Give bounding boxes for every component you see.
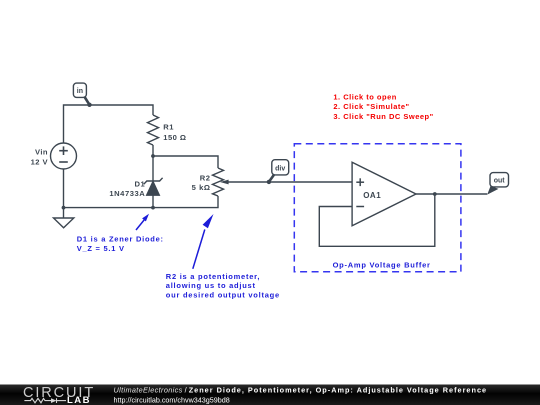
wire wiper to op-amp [228, 181, 352, 183]
node junction ground [62, 206, 66, 210]
node junction output [433, 192, 437, 196]
wire op-amp feedback [319, 194, 435, 246]
svg-text:Vin: Vin [35, 147, 48, 156]
blue arrow to D1 junction [136, 214, 149, 230]
wire bottom ground net [64, 196, 219, 208]
voltage source Vin [51, 143, 77, 169]
label Vin 12 V [31, 147, 49, 166]
wire node junction to R2 top [153, 156, 218, 168]
label D1 1N4733A [109, 180, 145, 199]
svg-text:5 kΩ: 5 kΩ [192, 183, 211, 192]
dashed box op-amp voltage buffer [294, 144, 461, 272]
wire top net in [64, 105, 154, 143]
ground [54, 208, 74, 228]
label R2 5 kohm [192, 173, 211, 192]
svg-text:V_Z = 5.1 V: V_Z = 5.1 V [77, 244, 125, 253]
svg-text:UltimateElectronics / Zener Di: UltimateElectronics / Zener Diode, Poten… [114, 385, 488, 394]
svg-text:R2 is a potentiometer,: R2 is a potentiometer, [166, 272, 260, 281]
node junction D1 bottom [151, 206, 155, 210]
svg-text:http://circuitlab.com/chvw343g: http://circuitlab.com/chvw343g59bd8 [114, 395, 230, 404]
svg-text:12 V: 12 V [31, 157, 49, 166]
net flag out [487, 173, 508, 195]
blue arrow to R2 [193, 214, 214, 269]
wire Vin bottom [63, 169, 65, 208]
zener diode D1 [144, 178, 163, 195]
R2 wiper arrow [220, 180, 229, 185]
op-amp OA1 [352, 162, 416, 226]
wire D1 to bottom [152, 195, 154, 208]
svg-text:2. Click "Simulate": 2. Click "Simulate" [333, 102, 409, 111]
svg-text:LAB: LAB [67, 395, 91, 405]
svg-text:allowing us to adjust: allowing us to adjust [166, 281, 256, 290]
svg-text:3. Click "Run DC Sweep": 3. Click "Run DC Sweep" [333, 112, 433, 121]
svg-text:OA1: OA1 [363, 191, 381, 200]
svg-text:D1: D1 [134, 180, 145, 189]
node junction R1/R2 [151, 154, 155, 158]
annotation red instructions [333, 93, 433, 121]
svg-text:150 Ω: 150 Ω [163, 133, 186, 142]
svg-text:R1: R1 [163, 123, 174, 132]
svg-text:D1 is a Zener Diode:: D1 is a Zener Diode: [77, 234, 164, 243]
svg-text:Op-Amp Voltage Buffer: Op-Amp Voltage Buffer [333, 260, 431, 269]
annotation blue R2 note [166, 272, 280, 300]
footer bar [0, 385, 540, 405]
svg-text:in: in [77, 88, 83, 95]
wire R1 to D1 [152, 145, 154, 181]
svg-text:R2: R2 [200, 173, 211, 182]
logo resistor-diode line [24, 398, 66, 403]
resistor R1 [148, 115, 159, 145]
svg-text:our desired output voltage: our desired output voltage [166, 291, 280, 300]
svg-text:div: div [275, 165, 285, 172]
net flag div [267, 160, 289, 184]
label R1 150 ohm [163, 123, 186, 142]
svg-text:out: out [494, 178, 506, 185]
svg-text:1N4733A: 1N4733A [109, 189, 145, 198]
net flag in [73, 83, 91, 107]
wire output [416, 193, 487, 195]
svg-text:1. Click to open: 1. Click to open [333, 93, 396, 102]
annotation blue D1 note [77, 234, 164, 253]
potentiometer R2 [213, 168, 224, 196]
